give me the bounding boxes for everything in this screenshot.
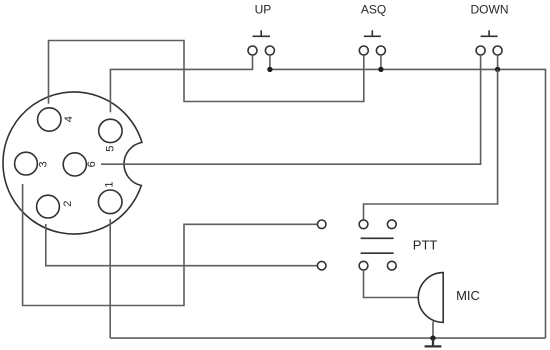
wire DOWN left terminal to pin6 [101,55,481,164]
svg-text:6: 6 [86,161,98,167]
open terminal (pin2 lead) [317,261,326,270]
junction dot MIC lead [430,335,435,340]
wire MIC lead to bottom bus [432,322,434,339]
pin 1 [98,190,122,214]
wire pin3 to open terminal [23,184,318,306]
junction dot UP right [267,67,272,72]
wire common bus top [270,69,546,338]
svg-text:DOWN: DOWN [471,3,509,17]
switch DOWN left terminal [476,46,485,55]
switch PTT bottom-right terminal [387,261,396,270]
switch ASQ left terminal [359,46,368,55]
pin 6 [63,153,86,176]
svg-text:1: 1 [104,182,116,188]
svg-text:PTT: PTT [413,238,438,253]
switch DOWN right terminal [493,46,502,55]
switch ASQ right terminal [376,46,385,55]
wire pin4 to ASQ left terminal [49,41,364,104]
switch PTT bottom-left terminal [359,261,368,270]
switch PTT top-left terminal [359,220,368,229]
switch ASQ button symbol [364,30,381,36]
switch UP button symbol [253,30,270,36]
pin 3 [15,152,38,175]
svg-text:3: 3 [38,161,50,167]
switch DOWN button symbol [481,30,498,36]
wire common bus bottom [110,337,545,339]
wire common bus branch to PTT top-left [364,69,498,220]
switch UP left terminal [248,46,257,55]
svg-text:MIC: MIC [456,288,480,303]
microphone MIC symbol [418,273,443,323]
pin 2 [37,195,60,218]
pin 5 [99,119,122,142]
wire UP right terminal drop [269,55,271,69]
ground symbol [425,338,442,346]
connector J1 outline with keyway notch [3,92,142,234]
svg-text:4: 4 [63,116,75,122]
switch UP right terminal [265,46,274,55]
svg-text:2: 2 [62,201,74,207]
svg-text:5: 5 [104,146,116,152]
svg-text:UP: UP [255,3,272,17]
switch PTT top-right terminal [387,220,396,229]
open terminal (pin3 lead) [317,220,326,229]
wire pin1 drop to bottom bus [109,219,111,338]
junction dot ASQ right [378,67,383,72]
pin 4 [38,108,61,131]
junction dot DOWN right [495,67,500,72]
wire pin2 to open terminal [46,224,318,266]
wire PTT bottom-left to MIC [364,270,419,297]
wire DOWN right terminal drop [497,55,499,69]
wire ASQ right terminal drop [380,55,382,69]
switch PTT contact bars [361,238,394,253]
wire pin5 to UP left terminal [110,55,252,112]
svg-text:ASQ: ASQ [361,3,386,17]
